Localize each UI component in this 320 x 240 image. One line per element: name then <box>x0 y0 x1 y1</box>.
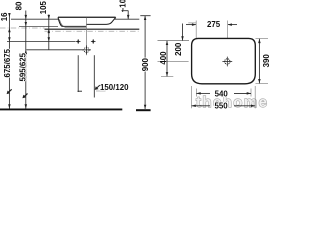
svg-text:900: 900 <box>141 58 150 72</box>
svg-text:390: 390 <box>262 54 271 68</box>
svg-text:540: 540 <box>215 89 229 98</box>
svg-text:80: 80 <box>15 1 24 10</box>
svg-text:16: 16 <box>0 12 9 21</box>
svg-text:150/120: 150/120 <box>100 83 129 92</box>
svg-text:thehome: thehome <box>196 94 268 111</box>
svg-text:550: 550 <box>215 102 229 111</box>
svg-text:105: 105 <box>39 1 48 15</box>
svg-text:675/675: 675/675 <box>3 48 12 77</box>
svg-text:400: 400 <box>159 51 168 65</box>
svg-text:595/625: 595/625 <box>18 52 27 81</box>
svg-text:275: 275 <box>207 20 221 29</box>
svg-text:200: 200 <box>174 42 183 56</box>
